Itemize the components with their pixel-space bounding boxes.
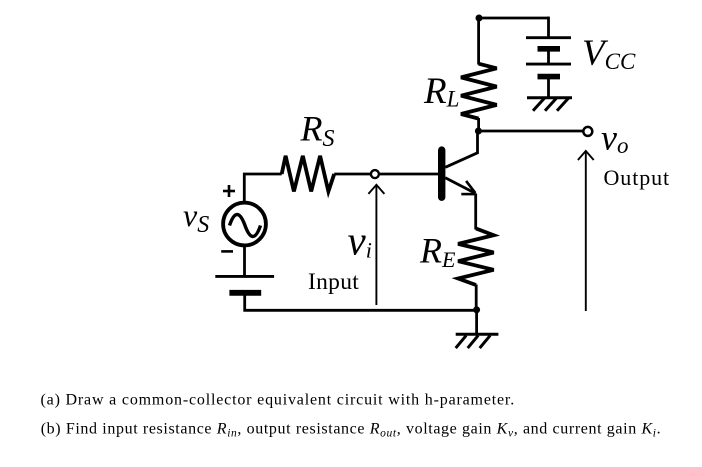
svg-text:vi: vi (348, 217, 372, 263)
svg-text:vo: vo (601, 117, 628, 158)
source vs circle (223, 203, 266, 246)
svg-text:VCC: VCC (582, 33, 636, 74)
resistor RS (282, 156, 335, 192)
node top junction (476, 15, 483, 22)
svg-text:(b) Find input resistance Rin,: (b) Find input resistance Rin, output re… (41, 421, 662, 440)
resistor RE (458, 229, 494, 286)
node vo terminal (583, 127, 592, 136)
wire source top (244, 174, 281, 203)
node ground junction (473, 306, 480, 313)
wire RE bottom (475, 285, 478, 311)
wire base (380, 173, 439, 176)
wire Vcc drop (547, 17, 550, 38)
plus sign (223, 185, 235, 197)
wire RL top (477, 18, 480, 65)
transistor Q1 base bar (438, 146, 445, 201)
wire source bottom stub (243, 245, 246, 277)
resistor RL (461, 64, 497, 119)
wire emitter with arrow (445, 178, 475, 230)
wire bottom rail (245, 294, 477, 310)
battery VCC (526, 38, 571, 98)
wire to vo terminal (478, 130, 582, 133)
node output junction (475, 128, 482, 135)
svg-text:RL: RL (423, 71, 459, 112)
ground (bottom) (456, 334, 499, 348)
arrow output (578, 151, 594, 311)
wire RL bottom (477, 118, 480, 131)
minus sign (221, 250, 233, 253)
svg-text:vS: vS (183, 197, 209, 238)
ground (Vcc) (527, 98, 572, 111)
battery (source minus) (215, 276, 274, 292)
svg-text:RE: RE (419, 231, 456, 273)
svg-text:Output: Output (604, 165, 671, 190)
svg-text:RS: RS (300, 109, 335, 153)
wire RS to input node (334, 173, 370, 176)
arrow vi (368, 185, 384, 305)
wire collector (445, 131, 477, 167)
wire top rail (479, 17, 549, 20)
svg-text:Input: Input (308, 269, 359, 295)
sine wave (230, 215, 261, 237)
wire ground stub (475, 310, 478, 334)
node input terminal (371, 170, 379, 178)
svg-text:(a) Draw a common-collector eq: (a) Draw a common-collector equivalent c… (41, 391, 516, 408)
